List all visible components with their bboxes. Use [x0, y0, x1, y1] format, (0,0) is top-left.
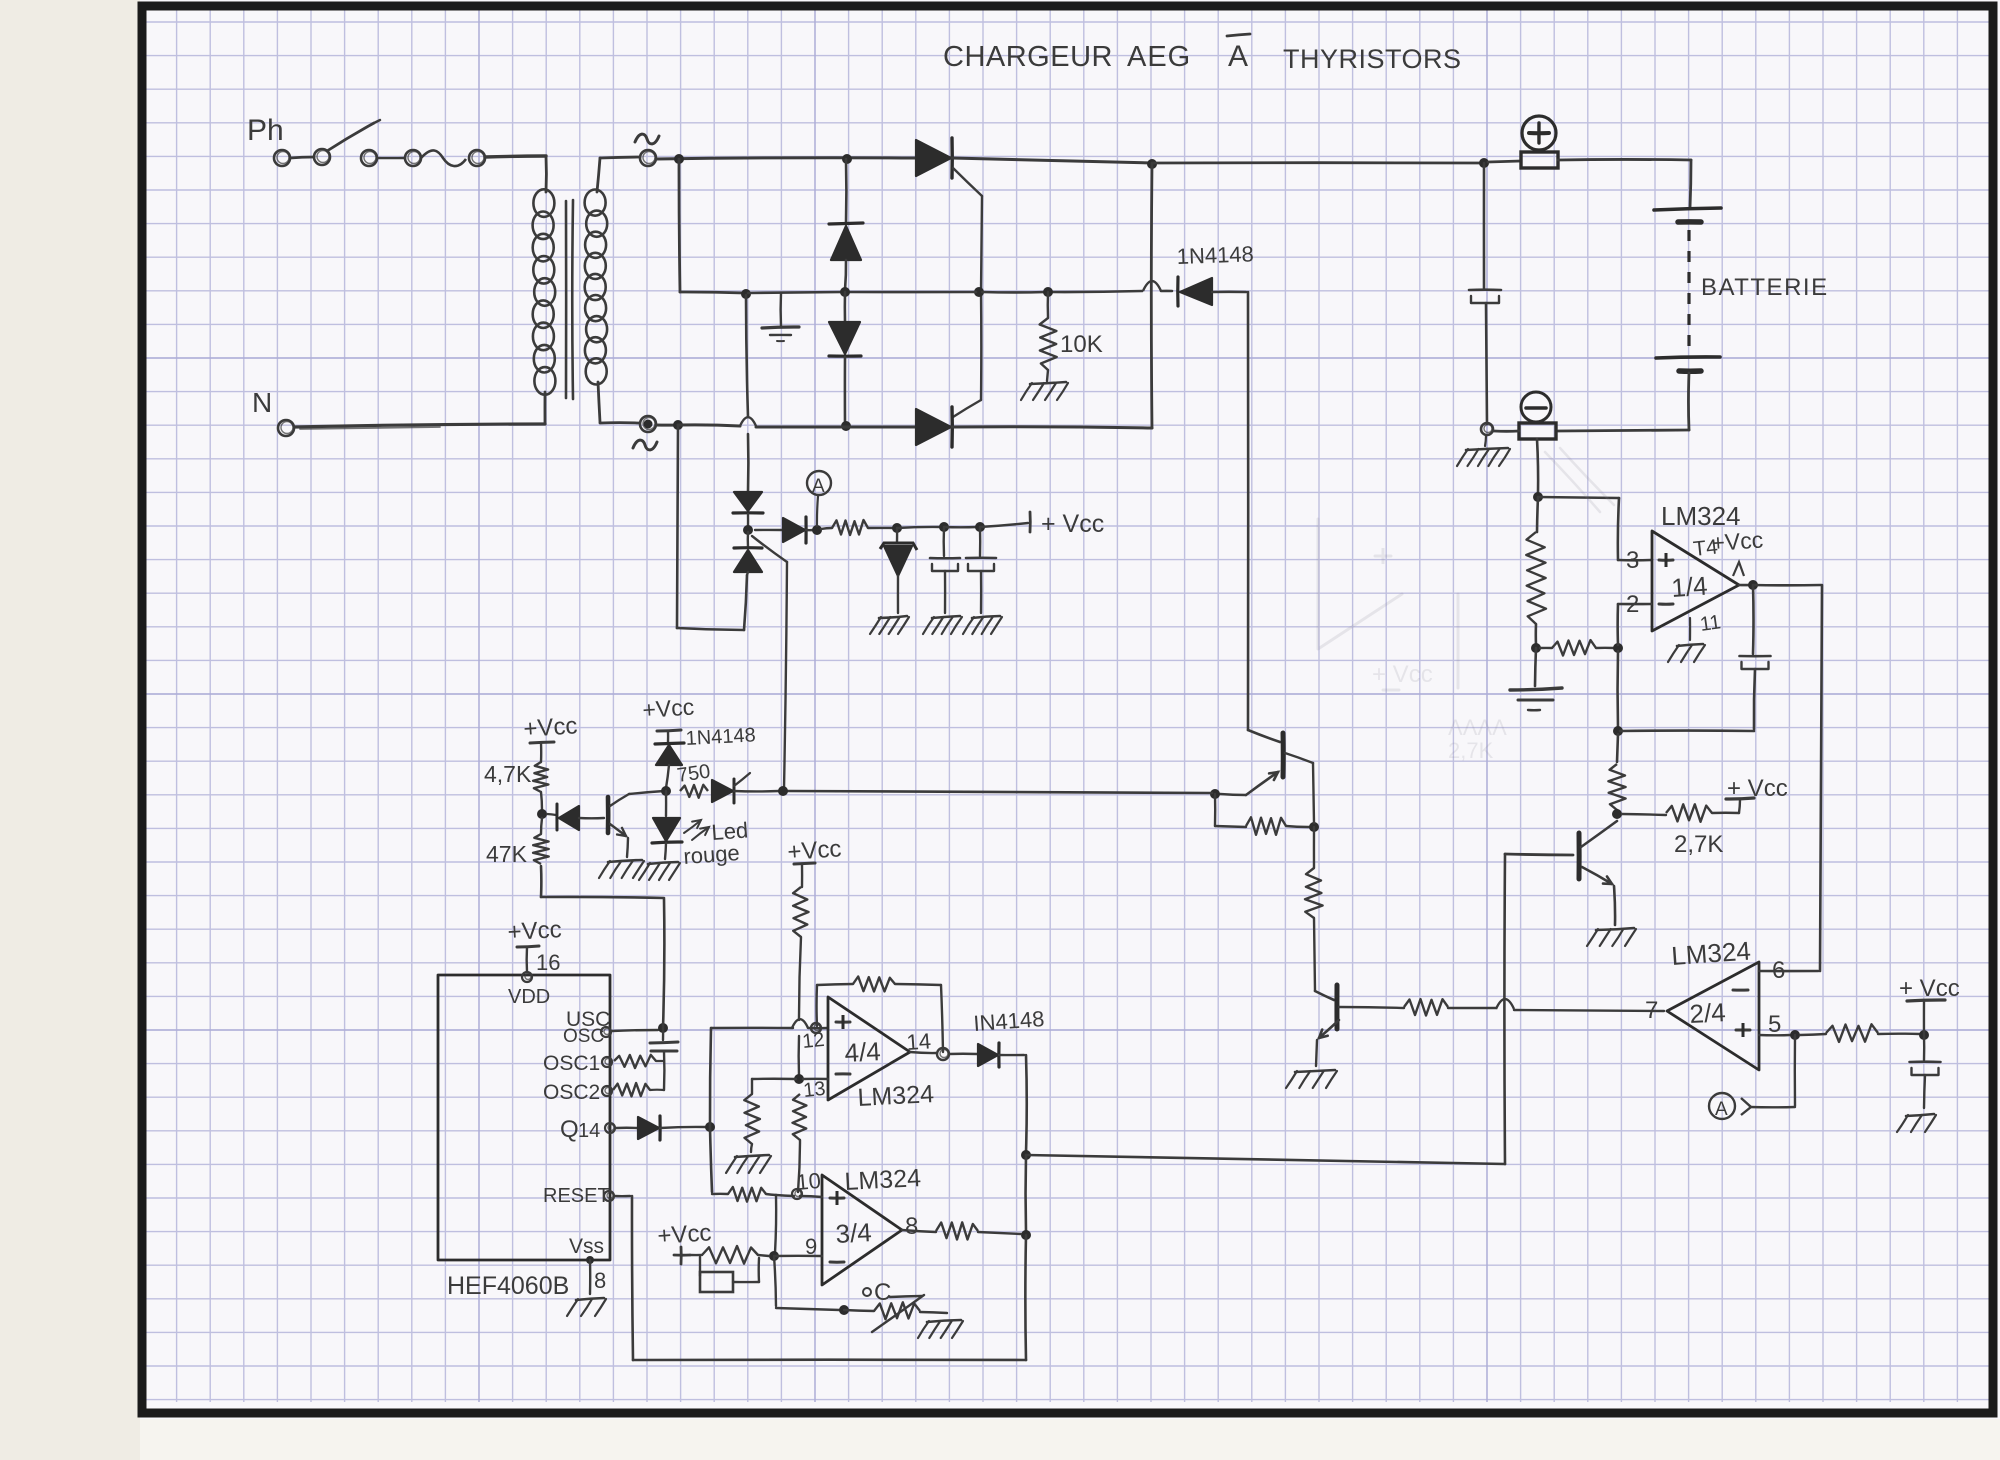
resistor +Vcc to pin9	[690, 1246, 769, 1264]
svg-text:+ Vcc: + Vcc	[1899, 975, 1960, 1002]
resistor +Vcc pullup to pin13	[787, 835, 843, 1084]
ground tap on mid bus	[762, 293, 799, 341]
node A return (ammeter)	[1709, 1035, 1795, 1120]
svg-text:7: 7	[1645, 997, 1658, 1024]
wire rail left vertical (Q14 to pin12/pin10)	[710, 1028, 712, 1192]
+Vcc tick (pin5 bias)	[1899, 975, 1960, 1035]
node Ph (phase input terminal)	[247, 114, 290, 166]
thyristor TH2 (bottom)	[916, 407, 952, 447]
zener diode DZ to ground	[880, 528, 917, 613]
wire mid bus	[748, 281, 1172, 293]
svg-text:RESET: RESET	[543, 1185, 610, 1207]
pin Q14 output	[560, 1116, 637, 1143]
wire pin9	[774, 1255, 822, 1258]
wire N to transformer primary	[295, 424, 545, 429]
svg-text:CHARGEUR: CHARGEUR	[943, 41, 1113, 73]
svg-text:C: C	[874, 1279, 891, 1306]
diode D3 to measuring node A	[755, 517, 822, 543]
pin USC/OSC output	[563, 1008, 668, 1047]
svg-text:10: 10	[795, 1168, 822, 1195]
svg-text:+ Vcc: + Vcc	[1041, 510, 1104, 538]
LED rouge indicator	[652, 791, 682, 859]
resistor divider upper	[1526, 497, 1546, 653]
wire Ph terminal chain	[290, 149, 421, 166]
svg-text:VDD: VDD	[508, 986, 550, 1008]
svg-text:3: 3	[1626, 547, 1639, 574]
node A (ammeter tap, top)	[807, 471, 831, 526]
svg-text:Vss: Vss	[569, 1235, 604, 1258]
svg-text:47K: 47K	[486, 841, 528, 867]
svg-text:A: A	[1715, 1099, 1728, 1120]
svg-text:+Vcc: +Vcc	[507, 916, 562, 946]
svg-text:3/4: 3/4	[835, 1217, 873, 1249]
svg-text:+ Vcc: + Vcc	[1372, 661, 1433, 688]
diode D5 1N4148 from +Vcc	[642, 693, 695, 796]
wire battery minus return	[1558, 373, 1689, 431]
resistor A-node to Vcc rail	[821, 520, 902, 535]
capacitor C3 across output	[1469, 163, 1501, 424]
svg-text:A: A	[1228, 40, 1248, 73]
capacitor C-osc	[650, 1028, 678, 1090]
wire rail pin12	[711, 1019, 828, 1033]
trimmer temperature adjust	[776, 1279, 947, 1332]
ground below LED rouge	[648, 862, 678, 864]
diode D2 (lower, freewheel column)	[829, 292, 861, 431]
ground below zener	[879, 616, 907, 618]
resistor R-fb vertical to 2.7K node	[1608, 764, 1625, 819]
svg-text:OSC1: OSC1	[543, 1052, 600, 1075]
IC HEF4060B body	[438, 975, 610, 1260]
op-amp U1D LM324 4/4	[828, 997, 910, 1100]
wire left branch from top bus to mid bus	[679, 159, 751, 299]
wire trigger return to AC bus	[677, 425, 747, 630]
resistor 47K	[533, 818, 549, 864]
wire pin13	[752, 1078, 828, 1081]
node AC~ bottom secondary terminal	[633, 416, 657, 450]
svg-text:1N4148: 1N4148	[685, 724, 756, 750]
wire bottom AC bus	[656, 417, 916, 430]
svg-text:+Vcc: +Vcc	[642, 693, 695, 723]
svg-text:4/4: 4/4	[844, 1036, 882, 1068]
pin OSC1 with resistor	[543, 1052, 663, 1075]
resistor pin5 to +Vcc	[1800, 1024, 1929, 1042]
svg-text:+Vcc: +Vcc	[1711, 526, 1764, 556]
resistor Q2/Q3 link vertical	[1305, 827, 1323, 991]
resistor divider to pin2	[1540, 640, 1623, 655]
svg-text:ΛΛΛΛ: ΛΛΛΛ	[1448, 715, 1507, 740]
resistor 10K gate bleed	[1040, 287, 1057, 381]
svg-text:+Vcc: +Vcc	[787, 835, 843, 866]
svg-text:LM324: LM324	[1661, 501, 1741, 531]
svg-text:Q: Q	[560, 1116, 579, 1143]
wire - rail down to divider	[1533, 439, 1543, 502]
resistor 4,7K	[533, 762, 548, 819]
svg-text:OSC2: OSC2	[543, 1081, 600, 1104]
wire top AC bus	[656, 154, 916, 164]
svg-text:A: A	[812, 476, 825, 497]
wire pin5 node	[1759, 1030, 1800, 1040]
svg-text:16: 16	[536, 950, 560, 975]
diode D-trig upper (pointing down)	[733, 492, 763, 535]
svg-text:OSC: OSC	[563, 1026, 604, 1047]
wire Vcc node chain	[897, 522, 1028, 532]
diode D4 on Q14	[638, 1116, 715, 1140]
transformer T1 secondary winding	[585, 157, 640, 423]
svg-text:Ph: Ph	[247, 114, 284, 147]
wire pin6 to U1A output	[1759, 585, 1822, 971]
node +Vcc supply tick	[1030, 510, 1104, 538]
pin OSC2 with resistor	[543, 1081, 664, 1104]
ground below Q3	[1295, 1070, 1335, 1072]
capacitor C2 filter	[966, 527, 996, 613]
crystal box below pin9 resistor	[700, 1257, 759, 1292]
transistor Q3 (NPN)	[1315, 985, 1339, 1066]
resistor pin13 to pin10	[792, 1094, 806, 1199]
pin 4 +Vcc tick on U1A	[1692, 526, 1764, 576]
ground below C2	[972, 616, 1000, 618]
ground below C1	[932, 616, 960, 618]
+Vcc pin 16 VDD	[507, 916, 562, 1008]
LED light arrows	[684, 820, 709, 840]
ground below Q1 emitter	[1596, 928, 1634, 930]
svg-text:1/4: 1/4	[1670, 571, 1708, 603]
svg-text:LM324: LM324	[844, 1164, 922, 1196]
connector box + terminal	[1521, 152, 1558, 168]
svg-text:13: 13	[802, 1078, 826, 1102]
thyristor TH1 (top)	[916, 138, 982, 196]
svg-text:+ Vcc: + Vcc	[1727, 775, 1788, 802]
ground below 10K	[1030, 382, 1066, 384]
optocoupler phototransistor	[608, 794, 629, 857]
wire output bus to + terminal	[1152, 158, 1521, 168]
wire - terminal to ground junction	[1481, 423, 1519, 435]
svg-text:8: 8	[594, 1268, 606, 1293]
svg-text:750: 750	[676, 761, 712, 787]
wire U1D output	[910, 1048, 977, 1060]
capacitor C4 on U1A output	[1740, 585, 1771, 729]
label Led rouge	[683, 817, 749, 869]
battery dashed middle	[1687, 230, 1690, 356]
wire divider node to pin3	[1538, 497, 1651, 560]
+Vcc top of 4,7K	[523, 712, 579, 762]
diode D6 1N4148 output	[978, 1043, 1024, 1067]
node - output terminal	[1521, 392, 1551, 422]
transformer T1 primary winding	[533, 156, 556, 423]
svg-text:+Vcc: +Vcc	[657, 1219, 713, 1250]
svg-text:LM324: LM324	[857, 1080, 935, 1112]
erased ghost op-amp sketch	[1318, 448, 1614, 763]
svg-text:rouge: rouge	[683, 840, 741, 869]
svg-text:THYRISTORS: THYRISTORS	[1283, 44, 1462, 74]
transistor Q2 (PNP gate driver)	[1246, 730, 1313, 795]
svg-text:5: 5	[1768, 1011, 1781, 1038]
wire U1A output	[1739, 580, 1821, 590]
svg-text:HEF4060B: HEF4060B	[447, 1272, 569, 1300]
ground below opto emitter	[608, 860, 642, 862]
op-amp U1B LM324 2/4	[1667, 962, 1759, 1070]
wire + terminal to battery	[1558, 159, 1691, 208]
transistor Q1 (right driver)	[1505, 821, 1617, 925]
wire pin9 feedback vertical	[769, 1195, 779, 1306]
transformer T1 core	[566, 200, 573, 399]
op-amp U1C LM324 3/4	[822, 1175, 902, 1285]
pin 11 ground on U1A	[1668, 611, 1722, 662]
svg-text:11: 11	[1699, 611, 1723, 636]
wire Q2 emitter to long drive line	[1210, 789, 1246, 799]
node + output terminal	[1522, 116, 1556, 150]
diode 1N4148 on mid bus	[1178, 277, 1246, 306]
thyristor D7 small (gate series)	[712, 773, 788, 803]
wire pin2 feedback vertical	[1613, 604, 1651, 762]
resistor 750	[676, 761, 712, 798]
diode D1 (upper, freewheel column)	[829, 159, 863, 297]
title: CHARGEUR AEG A THYRISTORS	[943, 34, 1462, 74]
wire gates vertical (TH1/TH2 gate rail)	[953, 196, 984, 417]
battery BT1 top cell	[1654, 208, 1721, 222]
svg-text:2,7K: 2,7K	[1674, 831, 1723, 858]
connector box - terminal	[1519, 423, 1556, 439]
resistor U1C output pin8	[902, 1222, 1021, 1239]
svg-text:BATTERIE: BATTERIE	[1701, 274, 1829, 301]
pin RESET	[543, 1185, 630, 1207]
diode D-trig lower (pointing up)	[734, 532, 762, 575]
svg-text:LM324: LM324	[1670, 936, 1751, 971]
wire osc rail to 47K divider	[541, 866, 664, 1028]
ground below trimmer	[927, 1320, 961, 1322]
svg-text:12: 12	[801, 1029, 825, 1053]
resistor 2,7K to +Vcc	[1622, 798, 1754, 822]
+Vcc tick (pin9 bias)	[657, 1219, 713, 1264]
ground below C5	[1906, 1114, 1934, 1116]
wire long line to comparator window	[1026, 1155, 1505, 1164]
capacitor C5 pin5 to ground	[1910, 1035, 1941, 1108]
wire output vertical rail	[1021, 1055, 1031, 1360]
wire trigger gate diagonal down	[752, 536, 787, 789]
capacitor C1 filter	[930, 527, 960, 613]
svg-text:14: 14	[578, 1120, 600, 1142]
resistor pin13 to ground	[744, 1079, 760, 1152]
svg-text:IN4148: IN4148	[973, 1006, 1046, 1036]
svg-text:1N4148: 1N4148	[1176, 241, 1254, 269]
ground below divider	[1510, 648, 1562, 710]
wire Q1 base rail down	[1503, 854, 1506, 1164]
battery BT1 bottom cell	[1656, 357, 1720, 371]
wire TH2 cathode to output vertical	[952, 164, 1152, 428]
svg-text:2/4: 2/4	[1689, 997, 1727, 1029]
wire squiggle to transformer	[421, 150, 546, 166]
pin 8 VSS ground	[567, 1235, 606, 1316]
svg-text:N: N	[252, 387, 272, 418]
svg-text:8: 8	[905, 1213, 918, 1240]
resistor Q3 base to comparator	[1339, 999, 1664, 1015]
switch S1 (open blade)	[327, 120, 380, 151]
svg-text:AEG: AEG	[1127, 41, 1191, 73]
wire TH1 cathode to output node	[952, 158, 1157, 169]
svg-text:+Vcc: +Vcc	[523, 712, 579, 743]
svg-text:10K: 10K	[1060, 331, 1103, 358]
svg-text:2,7K: 2,7K	[1448, 738, 1494, 763]
wire long gate line from opto	[787, 791, 1212, 793]
optocoupler LED	[547, 804, 604, 830]
ground below pin13 resistor	[735, 1155, 769, 1157]
resistor rail to pin10	[712, 1187, 822, 1202]
ground at - terminal	[1457, 436, 1510, 466]
wire opto collector to LED node	[629, 791, 664, 794]
feedback resistor over U1D	[817, 977, 943, 1053]
node AC~ top secondary terminal	[635, 134, 659, 166]
wire Q2 base network	[1215, 763, 1319, 835]
wire bottom feedback rail	[632, 1196, 1026, 1360]
node N (neutral input terminal)	[252, 387, 294, 436]
wire mid bus down to trigger diodes	[746, 295, 748, 492]
wire feedback line to pin2	[1620, 729, 1754, 732]
op-amp U1A LM324 1/4	[1652, 531, 1739, 631]
wire gate drive vertical long	[1247, 292, 1250, 730]
svg-text:4,7K: 4,7K	[484, 761, 532, 787]
